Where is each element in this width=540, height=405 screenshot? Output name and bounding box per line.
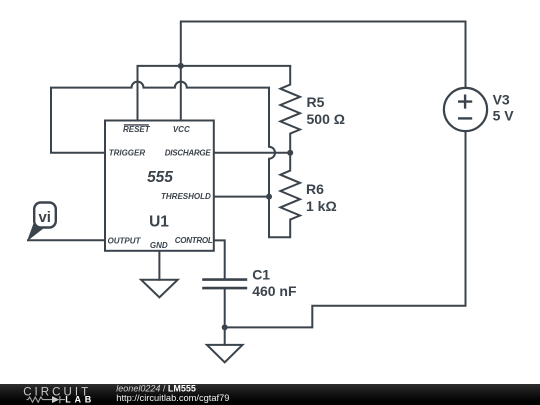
capacitor C1 [202,280,247,289]
wire THRESHOLD pin [214,196,269,198]
ground (GND pin) [141,280,178,298]
footer bar [0,384,540,405]
voltage source V3 [444,88,487,131]
junction R5/R6/DISCHARGE node [287,150,293,156]
wire RESET riser and rail to R5 top [138,66,291,120]
wire ground node to V3 minus [225,132,466,328]
junction TRIGGER/THRESHOLD node [266,194,272,200]
junction VCC/RESET rail node [178,63,184,69]
svg-text:LAB: LAB [65,395,95,405]
svg-text:460 nF: 460 nF [252,283,297,299]
svg-text:TRIGGER: TRIGGER [109,149,146,158]
wire GND pin down [158,251,160,280]
svg-text:5 V: 5 V [493,108,515,124]
pin labels [108,125,213,250]
svg-text:DISCHARGE: DISCHARGE [165,149,212,158]
svg-text:R5: R5 [307,94,325,110]
junction C1/ground net node [222,324,228,330]
svg-text:http://circuitlab.com/cgtaf79: http://circuitlab.com/cgtaf79 [116,393,229,403]
svg-text:U1: U1 [149,214,169,231]
svg-text:VCC: VCC [173,125,190,134]
svg-text:R6: R6 [306,181,324,197]
wire DISCHARGE to R5/R6 junction [214,152,290,154]
wire top rail VCC to V3 [181,22,466,120]
svg-text:500 Ω: 500 Ω [307,111,345,127]
wire THRESHOLD node to R6 bottom [269,197,290,238]
component value labels [252,91,514,299]
svg-text:GND: GND [150,241,168,250]
svg-text:OUTPUT: OUTPUT [108,236,142,245]
svg-text:C1: C1 [252,267,270,283]
svg-text:555: 555 [147,169,173,186]
resistor R6 [280,153,300,220]
wire TRIGGER to THRESHOLD with hops [51,82,275,197]
svg-text:THRESHOLD: THRESHOLD [161,192,211,201]
node vi flag [28,203,56,240]
ground (bottom net) [207,345,243,362]
wire C1 bottom to ground node [224,289,226,345]
svg-text:vi: vi [38,209,51,226]
wire OUTPUT pin [28,239,105,241]
wire CONTROL to C1 [214,240,225,279]
svg-text:V3: V3 [493,91,510,107]
svg-text:1 kΩ: 1 kΩ [306,198,337,214]
svg-text:CONTROL: CONTROL [175,236,213,245]
op-amp U1 555 timer box [105,121,214,251]
resistor R5 [280,66,300,153]
svg-text:RESET: RESET [123,125,151,134]
